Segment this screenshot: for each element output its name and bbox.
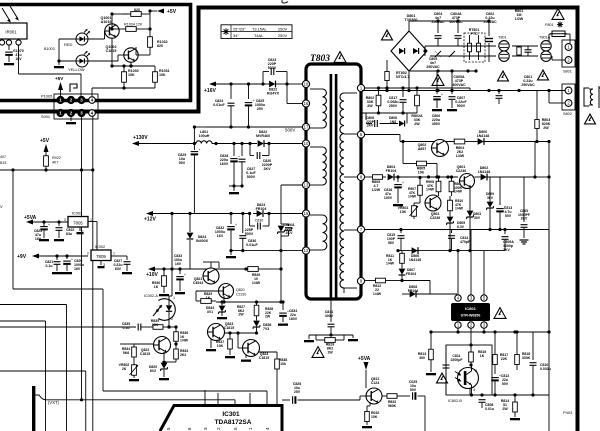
resistor R827 <box>256 302 258 305</box>
svg-text:4K7: 4K7 <box>52 161 59 165</box>
svg-text:FR104: FR104 <box>256 207 267 211</box>
optocoupler IC802-B <box>458 368 479 389</box>
IR001 pin 3 <box>0 40 5 45</box>
svg-text:+5VA: +5VA <box>24 215 37 221</box>
svg-text:C1815: C1815 <box>259 356 269 360</box>
svg-text:2W: 2W <box>238 313 244 317</box>
connector P1005 pin 1 <box>57 97 64 104</box>
zener D836 <box>253 321 260 327</box>
wire IC801 pin1 down <box>457 328 459 332</box>
wire S001 pin4 down <box>92 116 94 170</box>
transistor Q803 <box>425 195 441 211</box>
capacitor C827 <box>126 256 128 260</box>
svg-text:63V: 63V <box>115 267 122 271</box>
ground IC003 pin2 <box>79 227 81 231</box>
capacitor C812 <box>494 370 496 374</box>
net (VXT) <box>36 395 47 400</box>
svg-text:3: 3 <box>64 218 66 222</box>
ground under Q824 <box>245 354 247 358</box>
thermistor RT801 PTC <box>464 33 485 62</box>
warning triangle near opto <box>437 373 448 383</box>
AC main bus <box>362 90 565 92</box>
svg-text:7805: 7805 <box>73 221 83 226</box>
zener D805 <box>447 217 454 223</box>
svg-text:C4544: C4544 <box>193 281 203 285</box>
resistor R1030 <box>123 66 125 72</box>
wire Q821 collector <box>210 262 212 268</box>
capacitor C826b <box>282 399 290 401</box>
svg-text:T3S360: T3S360 <box>405 18 418 22</box>
thick stub bottom left <box>32 386 35 431</box>
svg-text:1/4W: 1/4W <box>408 195 417 199</box>
transistor Q802 <box>432 140 449 157</box>
resistor R802A <box>416 88 418 95</box>
capacitor C825 <box>248 84 250 99</box>
ground under C820 <box>62 272 72 274</box>
wire S001 pin3 long drop <box>81 170 83 400</box>
ground under S001 <box>70 116 72 121</box>
svg-text:13: 13 <box>304 183 309 188</box>
svg-text:30V: 30V <box>474 216 481 220</box>
svg-text:250VAC: 250VAC <box>431 20 445 24</box>
wire S001 pin3 down <box>81 116 83 170</box>
capacitor C821 <box>56 256 58 260</box>
svg-text:50V: 50V <box>410 388 417 392</box>
svg-text:C2236: C2236 <box>430 216 440 220</box>
ground IC002 pin3 <box>100 261 102 266</box>
wire R833 to zener <box>164 361 176 363</box>
transistor Q1001 <box>105 24 119 38</box>
+130V supply arrow <box>132 141 139 146</box>
svg-text:1/4W: 1/4W <box>456 154 465 158</box>
svg-text:34": 34" <box>233 33 239 38</box>
svg-text:2KV: 2KV <box>264 167 272 171</box>
svg-text:1K: 1K <box>480 354 485 358</box>
svg-text:2KV: 2KV <box>286 231 294 235</box>
svg-text:1: 1 <box>113 252 115 256</box>
resistor R922 <box>45 152 47 156</box>
resistor R832 <box>369 402 371 406</box>
transistor Q811 <box>366 388 382 404</box>
capacitor C811 <box>445 345 447 363</box>
IC IC301 TDA8172SA <box>160 406 282 431</box>
wire IC801 pin top1 <box>457 251 459 295</box>
wire pin8 east <box>365 176 369 178</box>
ground under C1070 <box>4 63 14 65</box>
wire D808 to IC801 <box>456 294 458 295</box>
wire rail down x549 <box>548 142 550 333</box>
resistor R1034 <box>112 28 126 30</box>
T803 pin 17 <box>302 123 309 130</box>
wire top rail Q820 <box>216 301 283 303</box>
wire route B <box>0 304 67 306</box>
zener D803 <box>467 211 474 217</box>
svg-text:1/4W: 1/4W <box>386 262 395 266</box>
svg-text:1/4W: 1/4W <box>373 292 382 296</box>
capacitor at S802 line <box>498 91 500 95</box>
svg-text:P403: P403 <box>563 410 573 415</box>
frame: top-left control box border <box>0 5 191 101</box>
svg-text:1N4148: 1N4148 <box>409 258 421 262</box>
svg-text:C1815: C1815 <box>224 326 234 330</box>
diode D807 <box>399 269 406 275</box>
svg-text:+130V: +130V <box>133 135 148 141</box>
svg-text:7809: 7809 <box>96 254 106 259</box>
diode D804 <box>388 174 394 181</box>
wire S802 pin2 <box>549 102 565 104</box>
wire IC801 pin2 down <box>470 328 472 345</box>
svg-text:FR104: FR104 <box>386 169 397 173</box>
svg-text:C2236: C2236 <box>456 169 467 173</box>
svg-text:+: + <box>48 223 50 227</box>
svg-text:IN400X: IN400X <box>196 239 209 243</box>
warning triangle at T803 <box>334 52 346 63</box>
svg-text:250VAC: 250VAC <box>521 83 535 87</box>
capacitor C829 <box>193 127 195 150</box>
svg-text:1K: 1K <box>154 285 159 289</box>
wire 7809 output <box>111 255 127 257</box>
svg-text:IC801: IC801 <box>465 306 476 311</box>
svg-text:C124: C124 <box>371 381 379 385</box>
wire pin18 tap to pin16 <box>286 84 288 104</box>
zener D820 <box>163 352 165 360</box>
connector S001 pin 3 <box>78 110 85 117</box>
capacitor C825b <box>402 395 410 397</box>
+5V supply arrow <box>150 10 157 12</box>
warning triangle at IC801 <box>494 308 506 319</box>
wire 7805 output <box>88 221 97 223</box>
wire IR001 pin2 down <box>8 45 10 50</box>
IC301 pin stub 3 <box>204 390 206 405</box>
svg-text:250V: 250V <box>278 26 287 31</box>
capacitor C823 snubber <box>261 82 264 85</box>
ground right of C841 <box>352 335 354 338</box>
svg-text:FR104: FR104 <box>406 272 416 276</box>
resistor R801 <box>512 45 538 47</box>
svg-text:400V: 400V <box>325 314 334 318</box>
svg-text:1/4W: 1/4W <box>455 207 464 211</box>
svg-text:+: + <box>198 148 200 152</box>
svg-text:250V: 250V <box>389 104 398 108</box>
capacitor C810 <box>532 332 534 360</box>
wire IC801 pin top2 <box>470 230 472 295</box>
svg-text:C2230: C2230 <box>236 293 246 297</box>
zener D834 <box>219 306 226 312</box>
svg-text:10K: 10K <box>217 344 224 348</box>
svg-text:470pF: 470pF <box>460 240 471 244</box>
T803 primary winding upper <box>323 89 327 128</box>
wire pin13 west <box>281 184 302 186</box>
wire L801 to D822 <box>212 143 257 145</box>
warning triangle under bridge <box>432 75 444 86</box>
diode D808 <box>410 291 416 298</box>
svg-text:160V: 160V <box>220 162 229 166</box>
transformer core <box>330 74 333 298</box>
ground left of C841 <box>308 335 310 339</box>
wire error bus <box>0 326 136 328</box>
diode D800 <box>478 138 484 145</box>
svg-text:R922: R922 <box>52 156 61 160</box>
diode D822 MVR460 <box>258 140 264 147</box>
wire R1032 to Q1002 collector <box>136 54 150 56</box>
capacitor C804 <box>437 21 439 33</box>
LED YELLOW <box>76 55 88 67</box>
svg-text:820: 820 <box>157 44 163 48</box>
svg-text:YELLOW: YELLOW <box>68 67 85 72</box>
svg-text:1W: 1W <box>327 351 333 355</box>
wire S001 pin4 bus <box>91 168 94 171</box>
svg-text:+: + <box>184 273 186 277</box>
warning triangle under plug <box>585 114 596 124</box>
resistor R829b <box>196 300 201 302</box>
svg-text:2: 2 <box>171 317 173 321</box>
resistor R836 <box>175 327 177 329</box>
svg-text:407: 407 <box>0 155 6 159</box>
wire R1034 to Q1001 <box>111 24 113 29</box>
svg-text:25V: 25V <box>257 107 264 111</box>
svg-text:C1815: C1815 <box>140 352 150 356</box>
resistor R833 <box>175 344 177 346</box>
svg-text:1/4W: 1/4W <box>252 281 261 285</box>
svg-text:RU4YX: RU4YX <box>267 92 280 96</box>
IC801 bottom pin 2 <box>468 322 474 328</box>
svg-text:T3.15AL: T3.15AL <box>252 26 268 31</box>
svg-text:50V: 50V <box>179 161 186 165</box>
capacitor C835 <box>137 324 139 331</box>
resistor R930 <box>162 267 165 270</box>
resistor R835 <box>149 326 153 328</box>
svg-text:1/4W: 1/4W <box>426 188 435 192</box>
connector key mark <box>70 84 77 92</box>
wire down x549 to bus <box>548 230 550 333</box>
+10V supply arrow <box>148 267 155 272</box>
svg-text:0.1u: 0.1u <box>122 326 129 330</box>
ground rail under C828 <box>229 185 242 187</box>
optocoupler IC802-B box <box>446 345 492 395</box>
wire pin5 east <box>365 134 400 136</box>
resistor R1032 <box>149 29 151 37</box>
svg-text:10K: 10K <box>128 73 135 77</box>
ground under C823 <box>39 239 49 241</box>
inductor L801 <box>196 141 212 144</box>
svg-text:2W: 2W <box>367 104 373 108</box>
svg-text:10K: 10K <box>400 210 407 214</box>
capacitor C822 <box>58 222 60 226</box>
svg-text:IC002-A: IC002-A <box>144 294 158 298</box>
resistor R805 out <box>369 176 373 178</box>
wire Q1002 emitter down <box>130 62 132 66</box>
transistor Q823 <box>208 324 225 341</box>
svg-text:12: 12 <box>304 248 309 253</box>
resistor R802 <box>378 88 380 95</box>
svg-text:A1015: A1015 <box>101 20 112 24</box>
wire to R836 <box>167 326 176 328</box>
svg-text:RED: RED <box>64 42 73 47</box>
zener D825 and capacitor C826A <box>279 249 282 252</box>
svg-text:Q820: Q820 <box>236 288 245 292</box>
resistor R1031 <box>154 66 156 72</box>
svg-text:C830: C830 <box>255 219 264 223</box>
capacitor C824 <box>230 84 232 99</box>
svg-text:+: + <box>402 181 404 185</box>
svg-text:5K6: 5K6 <box>123 351 129 355</box>
svg-text:2W: 2W <box>543 126 549 130</box>
svg-text:+5V: +5V <box>40 138 50 144</box>
diode D823 FR104 <box>257 210 263 217</box>
resistor R837 <box>229 333 231 339</box>
svg-text:2W: 2W <box>265 315 271 319</box>
svg-text:+10V: +10V <box>146 272 158 278</box>
svg-text:25"/29": 25"/29" <box>233 26 246 31</box>
degaussing coil plug <box>584 88 589 106</box>
IR001 pin 1 <box>16 40 21 45</box>
capacitor C804A <box>457 21 459 33</box>
svg-text:STR-W6856: STR-W6856 <box>461 314 481 318</box>
mark above border <box>282 0 288 3</box>
svg-text:+16V: +16V <box>204 88 216 94</box>
svg-text:IR001: IR001 <box>5 30 17 35</box>
wire bridge to line filter <box>425 45 496 47</box>
resistor R834 <box>120 343 134 345</box>
svg-text:1K: 1K <box>206 296 211 300</box>
svg-text:B1003: B1003 <box>44 47 55 51</box>
warning triangle under transformer <box>312 347 324 358</box>
svg-text:6.3V: 6.3V <box>457 225 465 229</box>
connector S001 pin 2 <box>68 110 75 117</box>
svg-text:FR104: FR104 <box>408 289 419 293</box>
wire Q1001 collector up <box>111 14 113 24</box>
svg-text:1/2W: 1/2W <box>515 17 524 21</box>
svg-text:10K: 10K <box>159 73 166 77</box>
svg-text:10: 10 <box>304 141 309 146</box>
svg-text:1/4W: 1/4W <box>454 190 463 194</box>
connector P1005 pin 2 <box>68 97 75 104</box>
svg-text:18: 18 <box>304 82 309 87</box>
diode D806 <box>412 247 418 254</box>
svg-text:T801: T801 <box>498 36 507 40</box>
capacitor C806 <box>436 71 438 94</box>
+16V supply arrow <box>209 82 216 87</box>
svg-text:IC802-B: IC802-B <box>448 399 462 403</box>
warning triangle left of bridge <box>382 30 393 40</box>
wire +5V to R1034 <box>149 11 151 29</box>
resistor R838 <box>258 351 277 353</box>
wire pin17 west <box>193 125 196 128</box>
IC801 bottom pin 3b <box>481 322 487 328</box>
resistor R805 10K <box>402 142 404 164</box>
wire pin9 to D808 <box>390 280 402 282</box>
LED RED <box>76 33 88 45</box>
T803 pin 15 <box>302 210 309 217</box>
svg-text:300: 300 <box>419 356 425 360</box>
svg-text:+: + <box>235 223 237 227</box>
transistor Q1002 <box>124 48 138 62</box>
wire IR001 pin1 to connector <box>18 45 20 74</box>
IC801 top pin 5 <box>481 295 487 301</box>
line filter T801 <box>499 41 509 51</box>
svg-text:+5V: +5V <box>55 76 64 81</box>
svg-text:TDA8172SA: TDA8172SA <box>215 419 252 426</box>
wire R803 to rail <box>535 140 538 143</box>
+12V supply arrow <box>146 211 153 216</box>
resistor R810 <box>449 196 451 200</box>
capacitor C820 <box>66 256 68 259</box>
T803 pin 9 <box>357 277 364 284</box>
feedback bus <box>431 331 549 333</box>
capacitor C823 <box>43 222 45 226</box>
svg-text:1: 1 <box>173 296 175 300</box>
svg-text:(VXT): (VXT) <box>48 400 60 405</box>
capacitor C802 <box>488 21 490 36</box>
capacitor C832 <box>229 212 232 215</box>
safety spark gap C805b <box>449 51 455 57</box>
resistor R811 <box>401 251 403 254</box>
wire pin8 bus east <box>417 176 458 178</box>
wire Q1001 emitter down <box>111 38 113 66</box>
diode D802 <box>481 174 487 181</box>
resistor R812 <box>371 280 376 282</box>
T803 winding pins15-12 <box>323 215 327 250</box>
resistor R829c <box>196 290 219 292</box>
svg-text:100uH: 100uH <box>199 134 210 138</box>
svg-text:4: 4 <box>265 427 270 430</box>
svg-text:17: 17 <box>304 125 309 130</box>
T803 pin 8 <box>357 173 364 180</box>
svg-text:330K: 330K <box>522 356 531 360</box>
wire route D <box>0 370 86 372</box>
diode D822 RU4YX <box>269 81 275 88</box>
svg-text:+5V: +5V <box>167 9 177 15</box>
wire bottom rail to pin17 <box>206 126 302 128</box>
svg-text:+5VA: +5VA <box>358 356 371 362</box>
svg-text:1: 1 <box>248 427 253 430</box>
capacitor C1070 <box>5 51 13 53</box>
svg-text:A857: A857 <box>418 147 427 151</box>
wire to pin18 <box>285 82 288 85</box>
ground under C821 <box>52 272 62 274</box>
svg-text:NTC/4.7: NTC/4.7 <box>396 75 409 79</box>
svg-text:+12V: +12V <box>144 217 156 223</box>
wire snubber rail <box>362 112 417 114</box>
svg-text:T4AL: T4AL <box>254 33 264 38</box>
svg-text:400VAC: 400VAC <box>452 83 466 87</box>
svg-text:500V: 500V <box>285 128 295 133</box>
connector S001 pin 4 <box>89 110 96 117</box>
wire route A <box>13 288 103 290</box>
T803 pin 16 <box>302 100 309 107</box>
svg-text:400VAC: 400VAC <box>449 20 463 24</box>
warning triangle under T801 <box>498 71 509 81</box>
svg-text:IC301: IC301 <box>222 411 240 418</box>
capacitor C815 <box>399 228 402 231</box>
capacitor C841 under transformer <box>330 300 332 322</box>
wire Q823 to D836 <box>225 332 257 334</box>
diode D808p <box>380 123 399 125</box>
wire route C <box>0 320 46 322</box>
wire bridge top bus <box>408 21 410 31</box>
T803 pin 1 <box>357 84 364 91</box>
svg-text:2KV: 2KV <box>521 217 528 221</box>
wire bus y170 <box>0 169 93 171</box>
T803 winding pins10-13 <box>323 147 327 185</box>
T803 secondary winding <box>340 93 344 288</box>
svg-text:25V: 25V <box>294 390 301 394</box>
svg-text:50V: 50V <box>505 214 512 218</box>
ground rail pin12 <box>231 250 302 252</box>
resistor R907 <box>419 178 421 186</box>
svg-text:+: + <box>441 93 443 97</box>
wire opto pin2 down <box>167 325 170 328</box>
